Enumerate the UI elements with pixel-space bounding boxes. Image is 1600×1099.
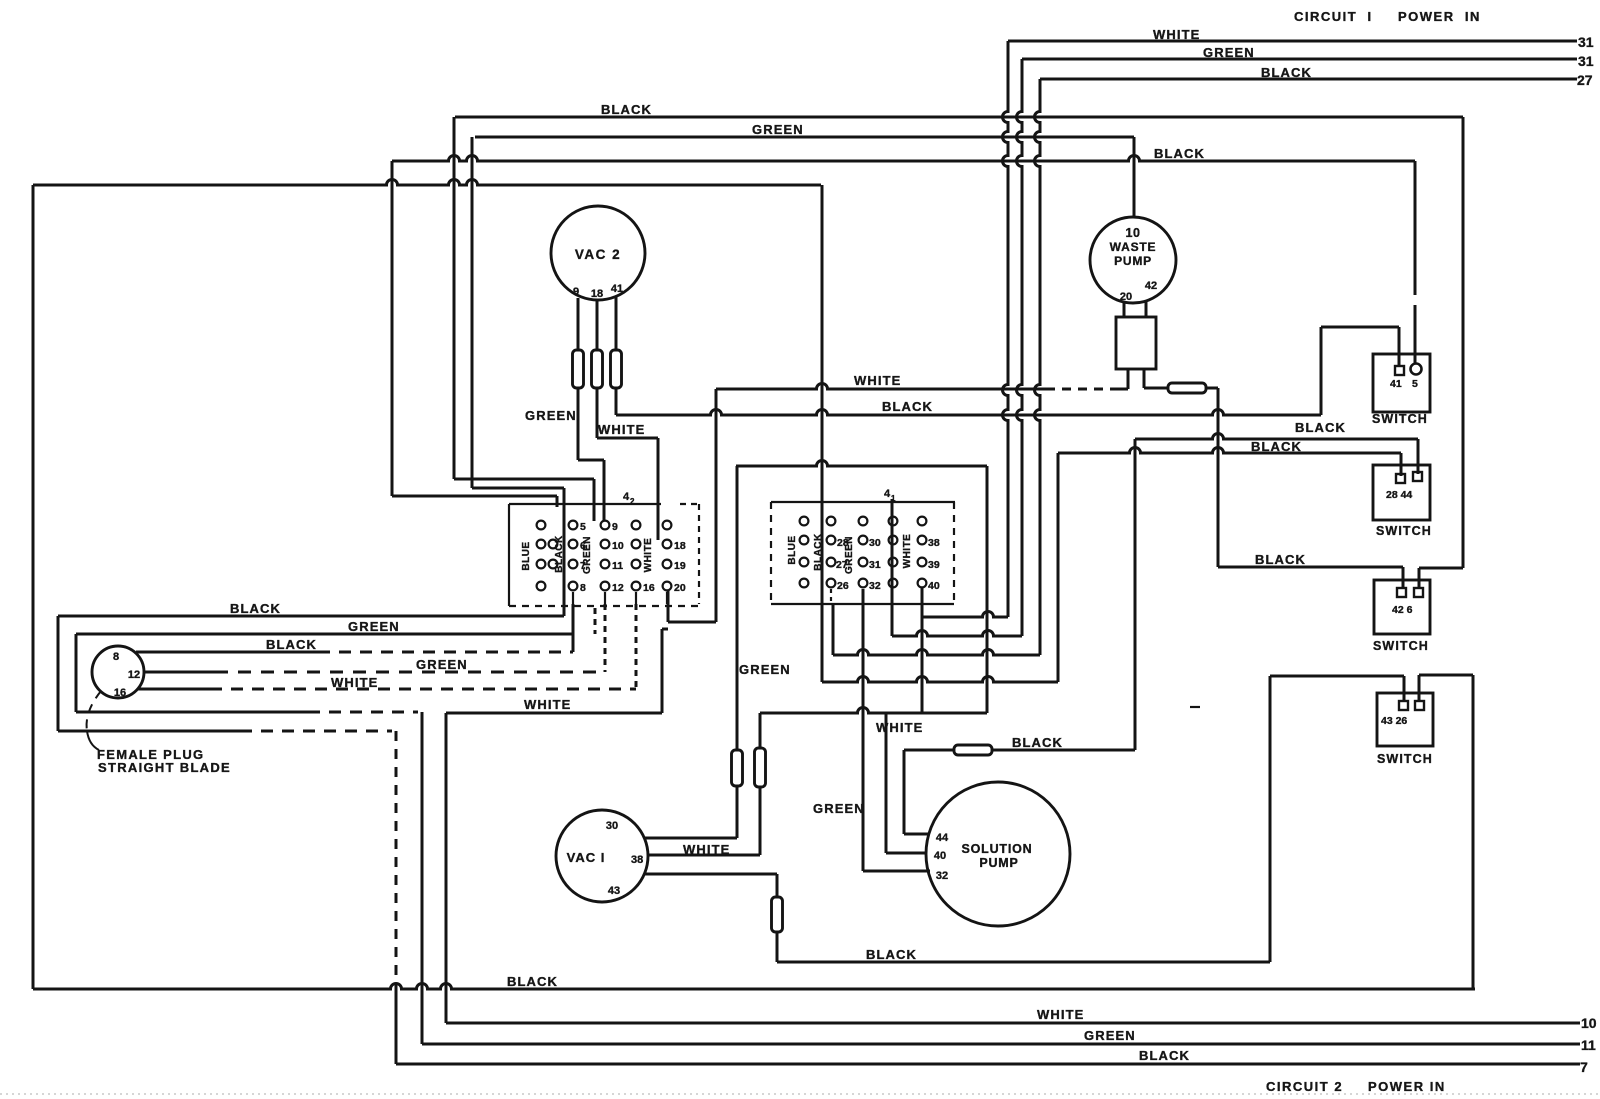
- fuse waste pump: [1168, 383, 1206, 393]
- svg-text:28 44: 28 44: [1386, 489, 1412, 501]
- wire SP pin44: [904, 833, 929, 836]
- wire white bus to relay: [1114, 388, 1128, 391]
- wire drop to switch1 right: [1414, 161, 1417, 295]
- svg-text:31: 31: [1578, 34, 1594, 50]
- svg-text:10: 10: [612, 540, 624, 552]
- wire switch1 left loop: [1321, 326, 1399, 329]
- svg-text:31: 31: [1578, 53, 1594, 69]
- svg-text:11: 11: [1581, 1037, 1596, 1053]
- svg-text:WHITE: WHITE: [524, 697, 571, 712]
- wire vac2 pin9 stub: [577, 298, 580, 350]
- svg-text:BLACK: BLACK: [507, 974, 558, 989]
- svg-text:BLACK: BLACK: [813, 533, 824, 571]
- svg-text:27: 27: [836, 559, 848, 571]
- svg-text:WHITE: WHITE: [902, 534, 913, 569]
- wire relay fuse feed: [1144, 387, 1168, 390]
- wire VAC1-43 out: [644, 873, 777, 876]
- svg-text:PUMP: PUMP: [979, 856, 1018, 870]
- wire green bus left drop: [471, 137, 474, 488]
- svg-text:32: 32: [936, 870, 948, 882]
- svg-text:26: 26: [837, 580, 849, 592]
- svg-text:POWER IN: POWER IN: [1368, 1079, 1446, 1094]
- svg-text:5: 5: [1412, 378, 1418, 390]
- svg-text:16: 16: [114, 687, 126, 699]
- svg-text:7: 7: [1580, 1059, 1588, 1075]
- wire white bus left drop: [715, 389, 718, 622]
- svg-text:WASTE: WASTE: [1110, 240, 1157, 254]
- wire GREEN circuit1 in: [1022, 58, 1577, 61]
- svg-text:BLACK: BLACK: [1255, 552, 1306, 567]
- svg-text:11: 11: [612, 560, 623, 572]
- svg-text:12: 12: [612, 582, 624, 594]
- svg-text:WHITE: WHITE: [598, 422, 645, 437]
- svg-text:SWITCH: SWITCH: [1376, 524, 1432, 538]
- motor VAC2: [551, 206, 645, 300]
- wire plug lower bus 2: [58, 730, 240, 733]
- svg-text:WHITE: WHITE: [1037, 1007, 1084, 1022]
- svg-text:39: 39: [928, 559, 940, 571]
- wire BLACK to switch2 right: [1135, 434, 1418, 440]
- wire BLACK to switch2 left: [1058, 448, 1401, 453]
- svg-text:BLUE: BLUE: [787, 535, 798, 564]
- wire WHITE circuit1 in: [1008, 40, 1577, 43]
- wire black drop to ladder R3: [1035, 79, 1041, 655]
- svg-text:9: 9: [573, 286, 579, 298]
- wire vac2 pin18 stub: [596, 301, 599, 350]
- svg-text:SWITCH: SWITCH: [1373, 639, 1429, 653]
- svg-text:SWITCH: SWITCH: [1372, 412, 1428, 426]
- wire black bus into block1: [454, 478, 594, 481]
- wire plug pin12: [144, 671, 215, 674]
- wire drop to switch3 left: [1217, 388, 1220, 567]
- svg-text:6: 6: [580, 540, 586, 552]
- wire WHITE link y713: [446, 712, 662, 715]
- wire drop x422 (green out): [421, 712, 424, 1044]
- wire GREEN plug bus: [76, 633, 573, 636]
- svg-text:WHITE: WHITE: [683, 842, 730, 857]
- wire outer border top: [33, 180, 821, 186]
- svg-text:GREEN: GREEN: [1084, 1028, 1136, 1043]
- wire link to white bus: [668, 621, 716, 624]
- wire x760 to VAC1-38: [759, 787, 762, 855]
- wire BLACK solution pump 44 feed: [904, 749, 954, 752]
- wire GREEN circuit2 out: [422, 1043, 1580, 1046]
- switch S4 (43 26): [1377, 693, 1433, 746]
- svg-text:BLACK: BLACK: [1012, 735, 1063, 750]
- wire vac2 pin41 stub: [615, 297, 618, 350]
- wire drop x396 dashed (black out): [395, 731, 398, 984]
- svg-text:BLUE: BLUE: [521, 541, 532, 570]
- svg-text:38: 38: [631, 854, 643, 866]
- fuse vac2 pin9: [573, 350, 584, 388]
- svg-text:27: 27: [1577, 72, 1593, 88]
- svg-text:30: 30: [606, 820, 618, 832]
- wire rung R3: [833, 650, 1040, 656]
- wire BLACK main bus (vac2-41): [615, 388, 618, 415]
- wire BLACK bottom bus: [33, 984, 1475, 989]
- svg-text:19: 19: [674, 560, 686, 572]
- svg-text:10: 10: [1581, 1015, 1597, 1031]
- wire BLACK circuit1 in: [1040, 78, 1577, 81]
- svg-text:BLACK: BLACK: [266, 637, 317, 652]
- svg-text:9: 9: [612, 521, 618, 533]
- svg-text:8: 8: [580, 582, 586, 594]
- wire through block1 x564: [563, 488, 566, 616]
- svg-text:WHITE: WHITE: [331, 675, 378, 690]
- wire black bus right drop: [1462, 117, 1465, 568]
- wire plug lower bus 1: [76, 711, 308, 714]
- fuse vac2 pin41: [611, 350, 622, 388]
- wire GREEN vac2-9 to block1: [577, 388, 580, 460]
- svg-text:42 6: 42 6: [1392, 604, 1413, 616]
- wire switch4 top right: [1418, 675, 1421, 701]
- wire drop x1135: [1134, 439, 1137, 750]
- svg-text:GREEN: GREEN: [739, 662, 791, 677]
- wire rung R5: [760, 708, 987, 714]
- svg-text:41: 41: [611, 283, 623, 295]
- svg-text:BLACK: BLACK: [230, 601, 281, 616]
- wire to switch3 right: [1419, 567, 1463, 570]
- svg-text:10: 10: [1126, 226, 1141, 240]
- svg-text:BLACK: BLACK: [1251, 439, 1302, 454]
- wire block1 bottom stubs: [572, 592, 574, 604]
- terminal block1 frame: [509, 503, 661, 505]
- terminal block2 contacts: [800, 517, 809, 526]
- wire rung R4: [822, 677, 1058, 683]
- wire BLACK circuit2 out: [396, 1063, 1580, 1066]
- svg-text:POWER IN: POWER IN: [1398, 9, 1481, 24]
- svg-text:STRAIGHT BLADE: STRAIGHT BLADE: [98, 760, 231, 775]
- svg-text:BLACK: BLACK: [882, 399, 933, 414]
- wire plug pin8 BLACK: [136, 651, 318, 654]
- svg-text:38: 38: [928, 537, 940, 549]
- wire drop x863 to SP-32: [862, 589, 865, 871]
- wire plug pin16 WHITE: [138, 688, 210, 691]
- wire left drop x392: [391, 161, 394, 496]
- svg-text:5: 5: [580, 521, 586, 533]
- svg-text:40: 40: [928, 580, 940, 592]
- wire rung R3 riser: [832, 604, 835, 655]
- wire green bus into block1: [472, 487, 564, 490]
- svg-text:GREEN: GREEN: [348, 619, 400, 634]
- switch S3 (42 6): [1374, 580, 1430, 634]
- svg-text:SWITCH: SWITCH: [1377, 752, 1433, 766]
- wire drop x922 (block2-40): [921, 588, 924, 714]
- wire white drop to ladder R1: [1003, 41, 1008, 617]
- wire GREEN top bus: [475, 136, 1134, 139]
- relay box: [1116, 317, 1156, 369]
- wire rung R2: [892, 631, 1022, 637]
- wire riser x662: [661, 629, 664, 713]
- wire drop x886 to SP-40: [885, 713, 888, 853]
- wire drop x1473: [1472, 675, 1475, 989]
- wire drop x1058 to R4: [1057, 453, 1060, 682]
- switch S2 (28 44): [1373, 465, 1430, 520]
- svg-text:BLACK: BLACK: [1154, 146, 1205, 161]
- svg-text:VAC I: VAC I: [567, 850, 606, 865]
- svg-text:20: 20: [674, 582, 686, 594]
- svg-text:WHITE: WHITE: [1153, 27, 1200, 42]
- motor SOLUTION PUMP: [926, 782, 1070, 926]
- terminal block1 contacts: [537, 521, 546, 530]
- svg-text:42: 42: [1145, 280, 1157, 292]
- svg-text:18: 18: [591, 288, 603, 300]
- fuse x777: [772, 897, 783, 932]
- svg-text:12: 12: [128, 669, 140, 681]
- wire pump neck: [1123, 302, 1126, 317]
- svg-text:43 26: 43 26: [1381, 715, 1407, 727]
- svg-text:GREEN: GREEN: [813, 801, 865, 816]
- wire BLACK top bus: [455, 116, 1463, 119]
- svg-text:7: 7: [580, 560, 586, 572]
- svg-text:28: 28: [837, 537, 849, 549]
- fuse x760: [755, 748, 766, 787]
- wire BLACK to switch3: [1218, 566, 1403, 569]
- terminal block2 frame: [771, 501, 955, 503]
- motor VAC1: [556, 810, 648, 902]
- wire SP pin40: [886, 852, 927, 855]
- wire relay stub left: [1127, 369, 1130, 389]
- wire BLACK block1 return: [58, 615, 564, 618]
- svg-text:BLACK: BLACK: [1295, 420, 1346, 435]
- svg-text:GREEN: GREEN: [525, 408, 577, 423]
- motor WASTE PUMP: [1090, 217, 1176, 303]
- scan edge: [0, 1093, 1600, 1095]
- wire riser x1270: [1269, 676, 1272, 962]
- stray dash: [1190, 706, 1200, 708]
- wire rung R1: [922, 612, 1008, 618]
- fuse solution pump: [954, 745, 992, 755]
- svg-text:2: 2: [630, 497, 635, 506]
- wire drop x737 upper: [736, 466, 739, 750]
- wire drop x987 to R5: [986, 466, 989, 713]
- svg-text:BLACK: BLACK: [866, 947, 917, 962]
- svg-text:20: 20: [1120, 291, 1132, 303]
- wire white bus dashed part: [1046, 388, 1114, 391]
- wire BLACK switch feed: [392, 156, 1415, 162]
- wire black bus left drop: [453, 117, 456, 479]
- svg-text:44: 44: [936, 832, 949, 844]
- wire drop x446 (white out): [445, 713, 448, 1023]
- wire into block1 top: [392, 495, 557, 498]
- svg-text:4: 4: [623, 491, 630, 503]
- wire green drop to ladder R2: [1017, 59, 1022, 636]
- wire cross link y466: [736, 461, 987, 467]
- svg-text:40: 40: [934, 850, 946, 862]
- wire plug bracket left: [57, 616, 60, 731]
- svg-text:30: 30: [869, 537, 881, 549]
- svg-text:BLACK: BLACK: [1261, 65, 1312, 80]
- wire long drop x822: [821, 185, 824, 682]
- svg-text:GREEN: GREEN: [416, 657, 468, 672]
- wire relay stub right: [1143, 369, 1146, 388]
- wire rung R2 riser: [891, 499, 894, 636]
- svg-text:CIRCUIT I: CIRCUIT I: [1294, 9, 1373, 24]
- wire R5 left drop: [759, 713, 762, 748]
- fuse vac2 pin18: [592, 350, 603, 388]
- wire BLACK to switch4 left: [776, 932, 779, 962]
- connector FEMALE PLUG: [92, 646, 144, 698]
- fuse x737: [732, 750, 743, 786]
- svg-text:BLACK: BLACK: [601, 102, 652, 117]
- wire WHITE bus: [716, 384, 1046, 390]
- svg-text:SOLUTION: SOLUTION: [962, 842, 1033, 856]
- svg-text:CIRCUIT 2: CIRCUIT 2: [1266, 1079, 1343, 1094]
- wire x737 to VAC1-30: [736, 786, 739, 838]
- svg-text:32: 32: [869, 580, 881, 592]
- svg-text:41: 41: [1390, 378, 1402, 390]
- svg-text:WHITE: WHITE: [854, 373, 901, 388]
- svg-text:18: 18: [674, 540, 686, 552]
- svg-text:8: 8: [113, 651, 119, 663]
- svg-text:VAC 2: VAC 2: [575, 247, 621, 262]
- svg-text:GREEN: GREEN: [752, 122, 804, 137]
- svg-text:GREEN: GREEN: [1203, 45, 1255, 60]
- wire outer border left: [32, 185, 35, 989]
- wire WHITE vac2-18 to block1: [596, 388, 599, 438]
- svg-text:31: 31: [869, 559, 881, 571]
- svg-text:PUMP: PUMP: [1114, 254, 1152, 268]
- leader female plug: [87, 691, 101, 731]
- svg-text:WHITE: WHITE: [876, 720, 923, 735]
- svg-text:WHITE: WHITE: [643, 538, 654, 573]
- svg-text:4: 4: [884, 488, 891, 500]
- wire green bus drop to waste pump: [1133, 137, 1136, 216]
- svg-text:43: 43: [608, 885, 620, 897]
- wire switch4 top left: [1270, 675, 1404, 678]
- switch S1 (41 5): [1373, 354, 1430, 412]
- wire WHITE circuit2 out: [446, 1022, 1580, 1025]
- svg-text:BLACK: BLACK: [1139, 1048, 1190, 1063]
- svg-text:16: 16: [643, 582, 655, 594]
